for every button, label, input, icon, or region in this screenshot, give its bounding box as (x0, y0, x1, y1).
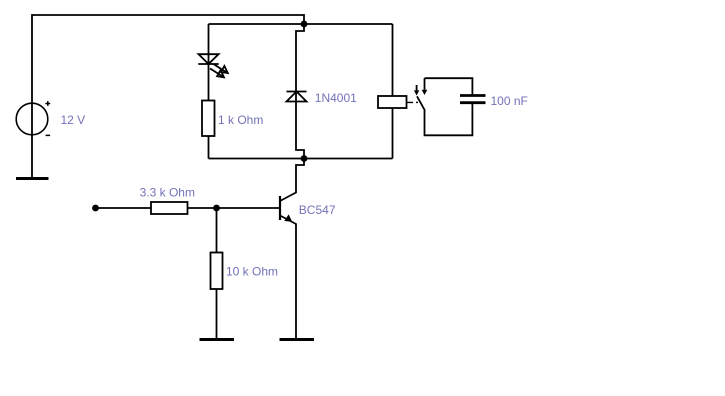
svg-text:3.3 k Ohm: 3.3 k Ohm (140, 186, 195, 200)
svg-text:10 k Ohm: 10 k Ohm (226, 265, 278, 279)
svg-text:100 nF: 100 nF (491, 94, 528, 108)
svg-text:BC547: BC547 (299, 203, 336, 217)
svg-text:1 k Ohm: 1 k Ohm (218, 113, 263, 127)
svg-text:12 V: 12 V (61, 113, 86, 127)
svg-text:1N4001: 1N4001 (315, 91, 357, 105)
